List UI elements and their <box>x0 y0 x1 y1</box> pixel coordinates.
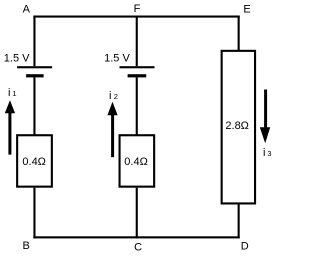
svg-text:2.8Ω: 2.8Ω <box>225 120 249 132</box>
svg-text:C: C <box>134 242 142 254</box>
wire: middle branch from node F down to battery V2 <box>136 16 138 67</box>
wire: right branch from node E down to resistor R3 <box>238 16 240 51</box>
wire: battery V1 to resistor R1 <box>33 77 35 135</box>
resistor R2 box <box>120 135 155 186</box>
svg-text:F: F <box>134 3 141 15</box>
svg-text:i: i <box>109 90 111 102</box>
svg-text:1.5 V: 1.5 V <box>104 52 130 64</box>
resistor R3 box <box>222 51 255 204</box>
svg-text:3: 3 <box>267 149 271 158</box>
svg-text:1: 1 <box>12 89 16 98</box>
svg-text:B: B <box>23 240 30 252</box>
svg-text:i: i <box>263 147 265 159</box>
current arrow i2 (pointing up) <box>107 102 117 158</box>
svg-text:0.4Ω: 0.4Ω <box>22 156 46 168</box>
wire: bottom bus B-C-D <box>33 236 239 238</box>
current arrow i1 (pointing up) <box>5 100 15 154</box>
wire: left branch from node A down to battery V1 <box>33 16 35 67</box>
wire: top bus A-F-E <box>33 16 239 18</box>
battery V2 long plate (+) <box>120 66 155 68</box>
battery V1 short plate (-) <box>26 74 43 77</box>
wire: resistor R2 to node C <box>136 188 138 239</box>
svg-text:0.4Ω: 0.4Ω <box>124 156 148 168</box>
battery V2 short plate (-) <box>128 74 147 77</box>
svg-text:1.5 V: 1.5 V <box>4 53 30 65</box>
svg-text:D: D <box>241 241 249 253</box>
svg-text:A: A <box>23 3 31 15</box>
wire: resistor R1 to node B <box>33 188 35 239</box>
wire: battery V2 to resistor R2 <box>136 77 138 135</box>
wire: resistor R3 to node D <box>238 204 240 239</box>
resistor R1 box <box>17 135 52 186</box>
current arrow i3 (pointing down) <box>260 90 270 144</box>
svg-text:i: i <box>8 87 10 99</box>
svg-text:2: 2 <box>114 92 118 101</box>
battery V1 long plate (+) <box>17 66 52 68</box>
svg-text:E: E <box>243 4 250 16</box>
